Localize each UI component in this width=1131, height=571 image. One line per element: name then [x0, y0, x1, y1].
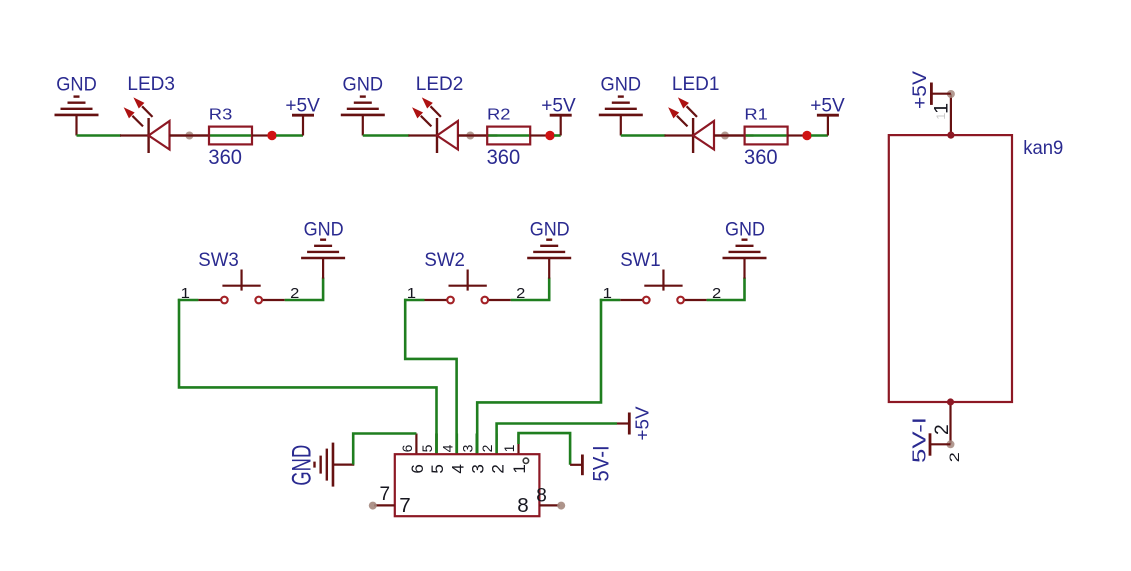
ground GND (SW1): [723, 240, 767, 279]
ground GND (LED3 circuit): [55, 97, 99, 136]
svg-text:4: 4: [449, 464, 468, 473]
+5V supply (LED2 circuit): [550, 115, 572, 135]
svg-text:6: 6: [408, 464, 427, 473]
kan9 pin 1 stub: [950, 94, 952, 135]
svg-text:SW2: SW2: [424, 250, 465, 271]
svg-text:+5V: +5V: [909, 71, 931, 109]
svg-text:2: 2: [947, 452, 962, 462]
junction dot (R3/+5V): [267, 131, 276, 140]
wire SW3 pin 1 to IC pin 5: [179, 299, 437, 453]
kan9 pin 1 join dot: [947, 90, 955, 98]
svg-text:GND: GND: [285, 445, 316, 486]
svg-text:6: 6: [399, 444, 415, 452]
wire LED2 to R2: [458, 134, 487, 136]
ground GND (SW2): [527, 240, 571, 279]
svg-text:7: 7: [399, 494, 410, 517]
svg-text:+5V: +5V: [285, 96, 320, 117]
wire net to SW1 pin 1: [600, 299, 620, 302]
junction dot (R1/+5V): [802, 131, 811, 140]
svg-text:LED3: LED3: [127, 74, 174, 95]
svg-text:8: 8: [536, 485, 547, 506]
svg-text:SW1: SW1: [620, 250, 661, 271]
junction pin dot (LED1/R1): [721, 132, 729, 140]
wire junction to +5V pin (LED3 circuit): [276, 134, 303, 137]
wire GND to LED3: [77, 134, 122, 137]
LED LED2: [408, 99, 497, 154]
switch SW3: [198, 270, 284, 304]
wire junction to +5V pin (LED1 circuit): [811, 134, 828, 137]
wire R2 to +5V junction: [530, 134, 546, 136]
wire IC pin 4 net overlay: [455, 434, 458, 455]
+5V supply (LED1 circuit): [817, 115, 839, 135]
svg-text:GND: GND: [530, 218, 570, 240]
+5V supply (kan9 pin 1): [931, 83, 951, 105]
IC pin 8 stub: [539, 504, 559, 506]
svg-text:+5V: +5V: [632, 406, 653, 440]
wire IC pin 1 to 5V-I: [519, 433, 571, 465]
svg-text:3: 3: [469, 464, 488, 473]
svg-text:R2: R2: [487, 106, 511, 123]
wire SW1 pin 2 to GND: [707, 278, 745, 301]
IC pin 8 end dot: [557, 502, 565, 510]
svg-text:2: 2: [488, 464, 507, 473]
resistor R3: [209, 127, 252, 145]
+5V supply (LED3 circuit): [292, 115, 314, 135]
wire IC pin 3 net overlay: [475, 434, 478, 455]
svg-text:5: 5: [428, 464, 447, 473]
wire junction to +5V pin (LED2 circuit): [554, 134, 561, 137]
5V-I supply (IC pin 1): [570, 455, 582, 476]
svg-text:7: 7: [380, 484, 391, 505]
svg-text:5: 5: [419, 444, 435, 452]
svg-text:360: 360: [208, 146, 242, 169]
svg-text:1: 1: [930, 103, 952, 114]
LED LED1: [665, 99, 754, 154]
junction pin dot (LED3/R3): [185, 132, 193, 140]
svg-text:GND: GND: [56, 73, 97, 95]
svg-text:1: 1: [934, 113, 948, 120]
switch SW2: [425, 270, 511, 304]
svg-text:8: 8: [517, 494, 528, 517]
junction dot (R2/+5V): [545, 131, 554, 140]
5V-I supply (kan9 pin 2): [930, 433, 951, 455]
svg-text:SW3: SW3: [198, 250, 239, 271]
wire GND to LED1: [621, 134, 666, 137]
wire R1 to +5V junction: [788, 134, 803, 136]
wire IC pin 5 net overlay: [435, 434, 438, 455]
wire IC pin 2 to +5V: [497, 424, 617, 455]
svg-text:GND: GND: [343, 73, 384, 95]
IC pin 7 stub: [374, 504, 395, 506]
switch SW1: [620, 270, 706, 304]
svg-text:3: 3: [459, 444, 475, 452]
svg-text:kan9: kan9: [1023, 138, 1063, 159]
resistor R1: [745, 127, 788, 145]
kan9 pin 2 join dot: [947, 440, 955, 448]
wire LED1 to R1: [714, 134, 745, 136]
svg-text:5V-I: 5V-I: [909, 417, 930, 463]
IC top pin stubs: [416, 434, 518, 455]
ground GND (LED1 circuit): [599, 97, 643, 136]
junction pin dot (LED2/R2): [466, 132, 474, 140]
svg-text:GND: GND: [304, 218, 344, 240]
ground GND (LED2 circuit): [341, 97, 385, 136]
svg-text:360: 360: [744, 146, 778, 169]
wire GND to LED2: [363, 134, 410, 137]
svg-text:+5V: +5V: [810, 96, 845, 117]
svg-text:LED1: LED1: [672, 74, 720, 95]
svg-text:4: 4: [439, 444, 455, 452]
svg-text:5V-I: 5V-I: [589, 445, 614, 481]
wire net to SW3 pin 1: [178, 299, 199, 302]
LED LED3: [120, 99, 209, 154]
connector kan9 body: [889, 135, 1012, 402]
wire GND to IC pin 6: [353, 434, 416, 465]
wire SW1 pin 1 to IC pin 3: [477, 299, 601, 453]
wire SW2 pin 2 to GND: [511, 278, 549, 301]
wire net to SW2 pin 1: [404, 299, 424, 302]
ground GND (SW3): [301, 240, 345, 279]
wire LED3 to R3: [170, 134, 210, 136]
svg-text:+5V: +5V: [541, 96, 576, 117]
svg-text:R1: R1: [744, 106, 768, 123]
kan9 pin 2 edge dot: [947, 398, 954, 405]
resistor R2: [487, 127, 530, 145]
svg-text:2: 2: [932, 424, 953, 435]
kan9 pin 1 edge dot: [947, 132, 954, 139]
svg-text:LED2: LED2: [416, 74, 464, 95]
wire SW3 pin 2 to GND: [285, 278, 323, 301]
ground GND (IC) rotated: [315, 443, 355, 487]
wire SW2 pin 1 to IC pin 4: [405, 299, 456, 453]
wire R3 to +5V junction: [252, 134, 268, 136]
svg-text:1: 1: [501, 444, 517, 452]
svg-text:R3: R3: [209, 106, 233, 123]
svg-text:GND: GND: [601, 73, 642, 95]
kan9 pin 2 stub: [949, 402, 951, 444]
svg-text:1: 1: [510, 464, 529, 473]
+5V supply (IC pin 2): [617, 413, 629, 435]
IC pin 7 end dot: [369, 502, 377, 510]
svg-text:360: 360: [487, 146, 521, 169]
IC pin 1 marker circle: [523, 458, 528, 463]
svg-text:2: 2: [479, 444, 495, 452]
IC body: [395, 454, 540, 516]
svg-text:GND: GND: [725, 218, 765, 240]
